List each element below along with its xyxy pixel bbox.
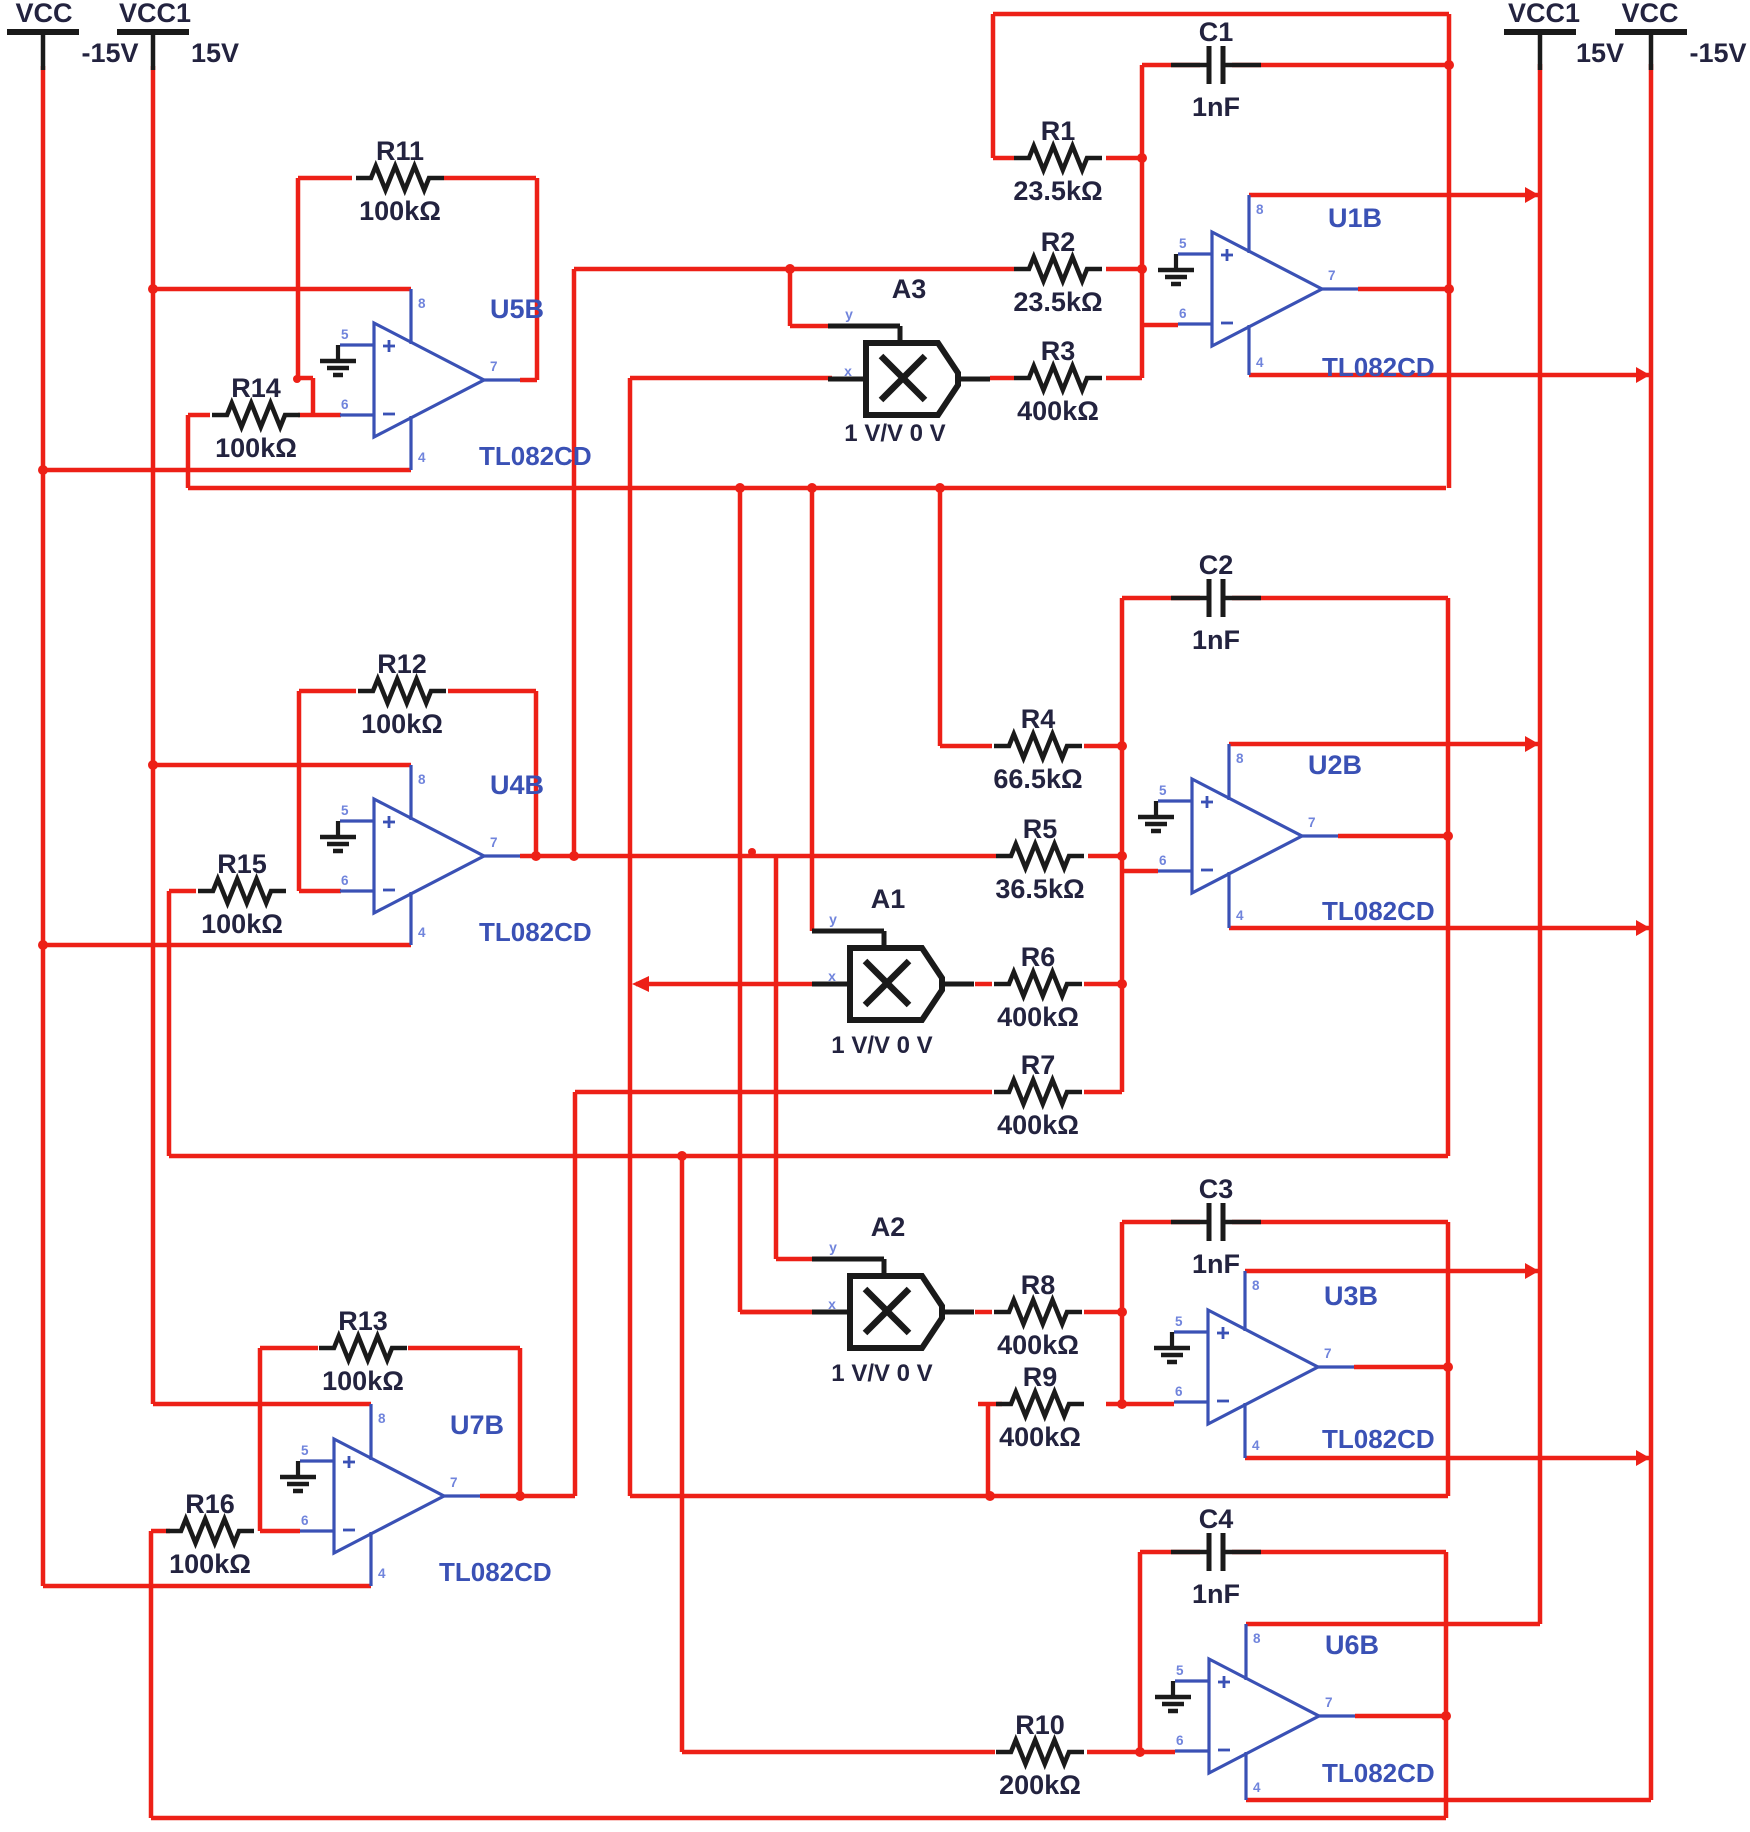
svg-text:5: 5 xyxy=(341,327,349,342)
svg-text:4: 4 xyxy=(1236,908,1244,923)
svg-text:U7B: U7B xyxy=(450,1410,504,1440)
svg-text:U1B: U1B xyxy=(1328,203,1382,233)
svg-text:R5: R5 xyxy=(1023,814,1058,844)
svg-text:TL082CD: TL082CD xyxy=(1322,1424,1435,1454)
svg-text:100kΩ: 100kΩ xyxy=(359,196,441,226)
svg-text:R9: R9 xyxy=(1023,1362,1058,1392)
svg-text:4: 4 xyxy=(1253,1780,1261,1795)
svg-text:5: 5 xyxy=(1176,1663,1184,1678)
svg-text:R3: R3 xyxy=(1041,336,1076,366)
svg-text:6: 6 xyxy=(301,1513,309,1528)
svg-text:400kΩ: 400kΩ xyxy=(997,1110,1079,1140)
svg-text:15V: 15V xyxy=(1576,38,1624,68)
svg-text:5: 5 xyxy=(341,803,349,818)
svg-text:100kΩ: 100kΩ xyxy=(361,709,443,739)
svg-text:8: 8 xyxy=(1252,1278,1260,1293)
svg-text:R10: R10 xyxy=(1015,1710,1065,1740)
svg-text:R6: R6 xyxy=(1021,942,1056,972)
svg-text:y: y xyxy=(829,911,837,927)
svg-text:R12: R12 xyxy=(377,649,427,679)
svg-text:8: 8 xyxy=(418,772,426,787)
svg-text:TL082CD: TL082CD xyxy=(479,441,592,471)
svg-text:C4: C4 xyxy=(1199,1504,1234,1534)
svg-text:1 V/V 0 V: 1 V/V 0 V xyxy=(844,420,945,447)
svg-text:7: 7 xyxy=(1324,1346,1332,1361)
svg-text:TL082CD: TL082CD xyxy=(1322,896,1435,926)
svg-text:A3: A3 xyxy=(892,274,927,304)
svg-text:400kΩ: 400kΩ xyxy=(997,1330,1079,1360)
svg-text:8: 8 xyxy=(378,1411,386,1426)
svg-text:x: x xyxy=(844,363,852,379)
svg-text:8: 8 xyxy=(1236,751,1244,766)
svg-text:U5B: U5B xyxy=(490,294,544,324)
svg-text:1nF: 1nF xyxy=(1192,625,1240,655)
svg-text:TL082CD: TL082CD xyxy=(439,1557,552,1587)
svg-text:4: 4 xyxy=(418,925,426,940)
svg-text:-15V: -15V xyxy=(81,38,138,68)
svg-text:36.5kΩ: 36.5kΩ xyxy=(995,874,1084,904)
svg-text:R2: R2 xyxy=(1041,227,1076,257)
svg-text:R1: R1 xyxy=(1041,116,1076,146)
svg-text:6: 6 xyxy=(1159,853,1167,868)
svg-text:200kΩ: 200kΩ xyxy=(999,1770,1081,1800)
svg-text:23.5kΩ: 23.5kΩ xyxy=(1013,287,1102,317)
svg-text:1nF: 1nF xyxy=(1192,92,1240,122)
svg-text:400kΩ: 400kΩ xyxy=(1017,396,1099,426)
svg-text:8: 8 xyxy=(1253,1631,1261,1646)
svg-text:5: 5 xyxy=(1175,1314,1183,1329)
svg-text:C3: C3 xyxy=(1199,1174,1234,1204)
svg-text:8: 8 xyxy=(418,296,426,311)
svg-text:VCC1: VCC1 xyxy=(119,0,191,28)
svg-text:400kΩ: 400kΩ xyxy=(999,1422,1081,1452)
svg-text:100kΩ: 100kΩ xyxy=(215,433,297,463)
svg-text:VCC: VCC xyxy=(1621,0,1678,28)
svg-text:7: 7 xyxy=(450,1475,458,1490)
svg-text:7: 7 xyxy=(1325,1695,1333,1710)
svg-text:6: 6 xyxy=(341,397,349,412)
svg-text:6: 6 xyxy=(1176,1733,1184,1748)
svg-text:A2: A2 xyxy=(871,1212,906,1242)
svg-text:R4: R4 xyxy=(1021,704,1056,734)
svg-text:100kΩ: 100kΩ xyxy=(169,1549,251,1579)
svg-text:R8: R8 xyxy=(1021,1270,1056,1300)
svg-text:U4B: U4B xyxy=(490,770,544,800)
svg-text:R11: R11 xyxy=(376,136,424,166)
svg-text:6: 6 xyxy=(341,873,349,888)
svg-text:TL082CD: TL082CD xyxy=(479,917,592,947)
svg-text:x: x xyxy=(828,968,836,984)
svg-text:TL082CD: TL082CD xyxy=(1322,1758,1435,1788)
svg-text:15V: 15V xyxy=(191,38,239,68)
svg-text:C1: C1 xyxy=(1199,17,1234,47)
svg-text:R15: R15 xyxy=(217,849,267,879)
svg-text:1 V/V 0 V: 1 V/V 0 V xyxy=(831,1032,932,1059)
svg-text:1 V/V 0 V: 1 V/V 0 V xyxy=(831,1360,932,1387)
svg-text:R16: R16 xyxy=(185,1489,235,1519)
svg-text:6: 6 xyxy=(1179,306,1187,321)
svg-text:VCC: VCC xyxy=(15,0,72,28)
svg-text:4: 4 xyxy=(418,450,426,465)
svg-text:5: 5 xyxy=(1159,783,1167,798)
svg-text:66.5kΩ: 66.5kΩ xyxy=(993,764,1082,794)
svg-text:7: 7 xyxy=(490,835,498,850)
svg-text:U3B: U3B xyxy=(1324,1281,1378,1311)
svg-text:y: y xyxy=(829,1239,837,1255)
svg-text:C2: C2 xyxy=(1199,550,1234,580)
svg-text:U6B: U6B xyxy=(1325,1630,1379,1660)
svg-text:7: 7 xyxy=(1308,815,1316,830)
svg-text:7: 7 xyxy=(490,359,498,374)
svg-text:R14: R14 xyxy=(231,373,281,403)
svg-text:y: y xyxy=(845,306,853,322)
svg-text:R7: R7 xyxy=(1021,1050,1056,1080)
svg-text:4: 4 xyxy=(378,1566,386,1581)
svg-text:400kΩ: 400kΩ xyxy=(997,1002,1079,1032)
svg-text:1nF: 1nF xyxy=(1192,1249,1240,1279)
svg-text:U2B: U2B xyxy=(1308,750,1362,780)
svg-text:x: x xyxy=(828,1296,836,1312)
svg-text:4: 4 xyxy=(1252,1438,1260,1453)
svg-text:6: 6 xyxy=(1175,1384,1183,1399)
svg-text:23.5kΩ: 23.5kΩ xyxy=(1013,176,1102,206)
svg-text:100kΩ: 100kΩ xyxy=(322,1366,404,1396)
svg-text:A1: A1 xyxy=(871,884,906,914)
svg-text:-15V: -15V xyxy=(1689,38,1746,68)
svg-text:4: 4 xyxy=(1256,355,1264,370)
svg-text:100kΩ: 100kΩ xyxy=(201,909,283,939)
svg-text:R13: R13 xyxy=(338,1306,388,1336)
svg-text:TL082CD: TL082CD xyxy=(1322,352,1435,382)
svg-text:8: 8 xyxy=(1256,202,1264,217)
svg-text:7: 7 xyxy=(1328,268,1336,283)
svg-text:5: 5 xyxy=(1179,236,1187,251)
svg-text:1nF: 1nF xyxy=(1192,1579,1240,1609)
svg-text:VCC1: VCC1 xyxy=(1508,0,1580,28)
svg-text:5: 5 xyxy=(301,1443,309,1458)
